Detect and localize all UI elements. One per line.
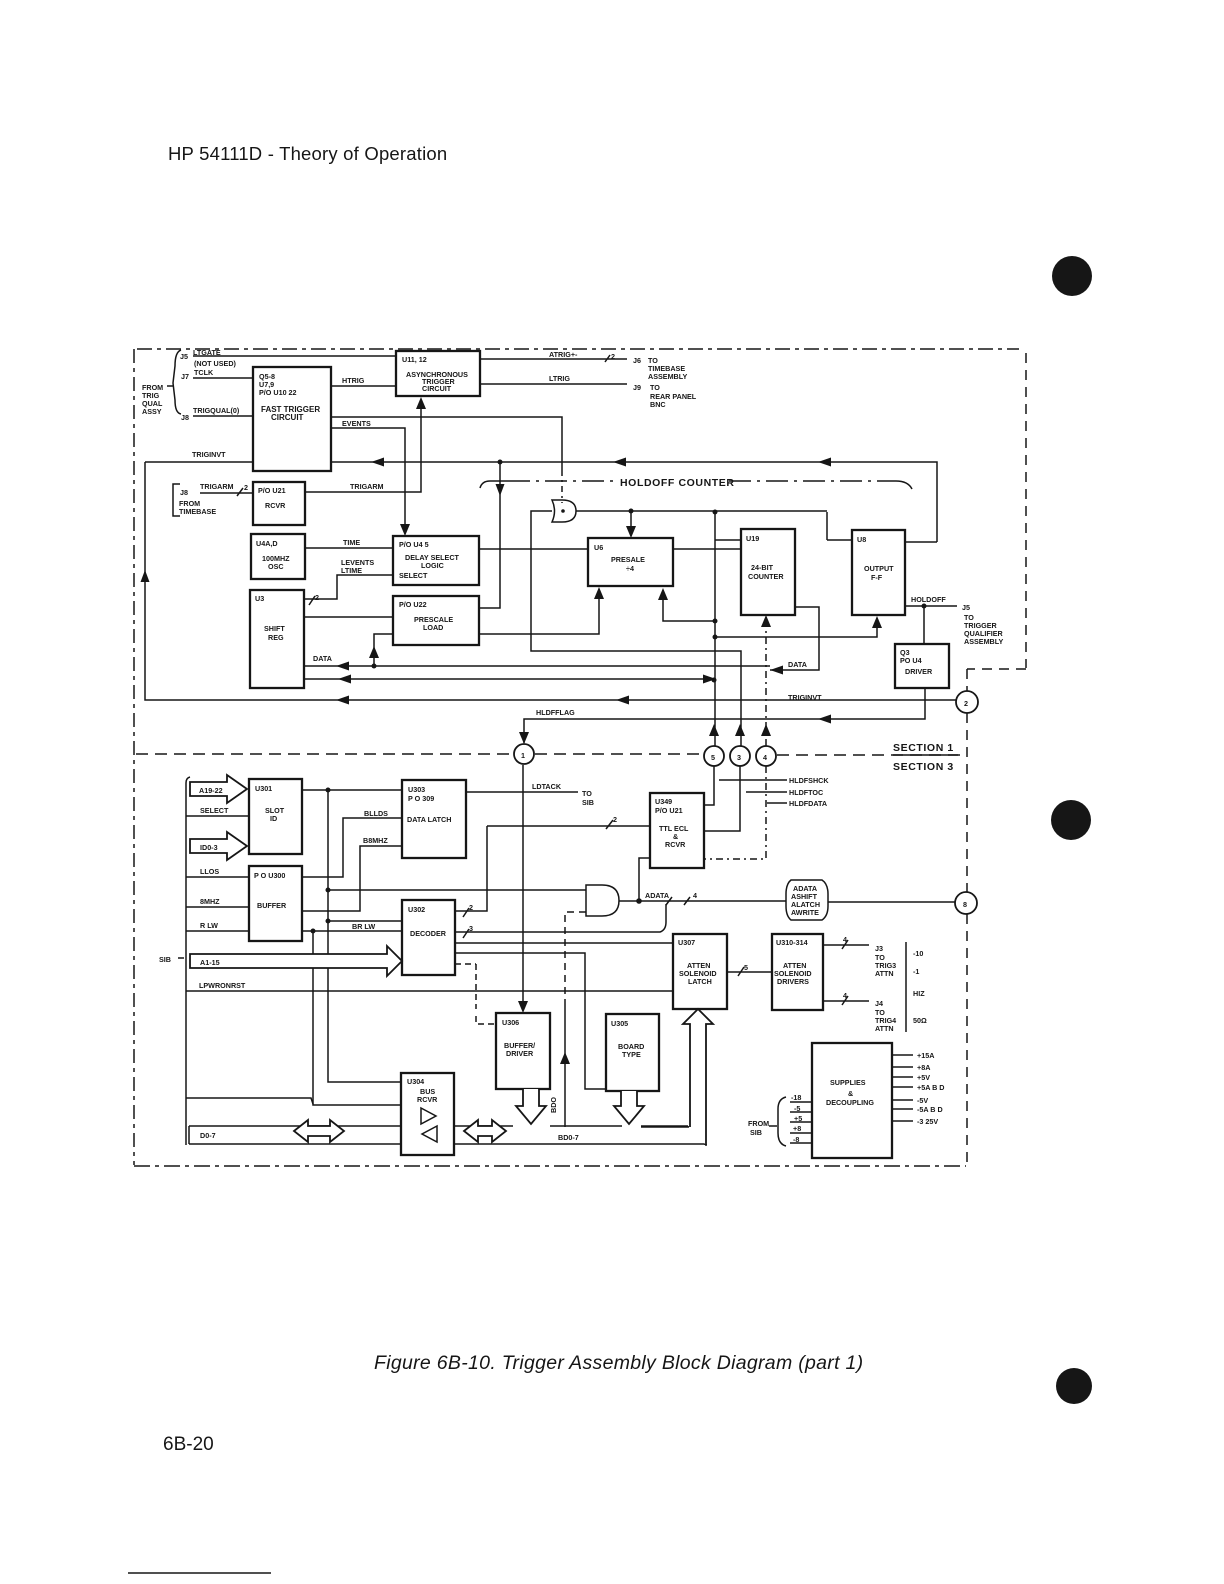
flag adata ashift alatch awrite (786, 880, 828, 920)
arrow loop left at 342 (336, 696, 349, 705)
svg-text:TRIGINVT: TRIGINVT (788, 693, 822, 702)
bus arrow A1-15 (190, 946, 402, 976)
svg-text:U6: U6 (594, 543, 603, 552)
svg-text:DRIVER: DRIVER (506, 1049, 534, 1058)
arrow into presale top (626, 526, 636, 538)
bracket J8 from timebase (173, 484, 180, 516)
label from trig qual assy (142, 383, 174, 416)
label 3 tick (463, 924, 473, 938)
box supplies and decoupling (812, 1043, 892, 1158)
section divider underline (893, 754, 958, 756)
wire decoder 2 output to u349 (455, 826, 650, 911)
svg-text:SIB: SIB (159, 955, 171, 964)
wire TRIGARM rcvr to async (305, 409, 421, 492)
wire circle5 to u349 (704, 766, 714, 805)
or-gate holdoff (552, 500, 576, 522)
label SIB (159, 955, 184, 964)
box U19 24-bit counter (741, 529, 795, 615)
wire to and gate top input (328, 889, 586, 891)
wire u310 j4 (823, 996, 869, 1005)
atten settings bar (905, 942, 907, 1032)
svg-text:-18: -18 (791, 1093, 801, 1102)
wire to output f-f bottom (715, 628, 877, 637)
label J4 to trig4 attn (875, 999, 896, 1033)
svg-text:5: 5 (744, 963, 748, 972)
wire and gate lower input (565, 912, 586, 1002)
box U8 output f-f (852, 530, 905, 615)
svg-text:ID0-3: ID0-3 (200, 843, 218, 852)
wire TRIGARM into rcvr (200, 492, 253, 494)
wire sib to u304 lower (186, 1098, 313, 1104)
svg-text:5: 5 (711, 753, 715, 762)
svg-text:SIB: SIB (582, 798, 594, 807)
node prescale tap (372, 664, 377, 669)
node 679 (712, 678, 717, 683)
brace from trig qual (173, 350, 181, 414)
svg-text:24-BIT: 24-BIT (751, 563, 774, 572)
wire DATA long to shift reg (304, 665, 770, 667)
footer rule (128, 1572, 271, 1574)
wire presale bottom to vertical (663, 598, 715, 621)
svg-text:HLDFFLAG: HLDFFLAG (536, 708, 575, 717)
svg-text:8: 8 (963, 900, 967, 909)
svg-text:-5: -5 (794, 1104, 800, 1113)
wire u307 to u310 (727, 971, 772, 973)
holdoff counter dash-dot bracket (480, 481, 912, 489)
svg-text:P O 309: P O 309 (408, 794, 434, 803)
supplies inputs (790, 1093, 812, 1144)
wire TRIGINVT loop bottom (145, 462, 956, 700)
svg-text:FROM: FROM (748, 1119, 769, 1128)
svg-text:J8: J8 (180, 488, 188, 497)
arrow loop up (141, 570, 150, 582)
label 2 tick (237, 483, 248, 496)
wire ATRIG to J6 (480, 355, 627, 362)
svg-text:DRIVER: DRIVER (905, 667, 933, 676)
wire decoder 3 output (455, 904, 666, 932)
svg-text:J5: J5 (962, 603, 970, 612)
svg-text:RCVR: RCVR (265, 501, 286, 510)
svg-text:U306: U306 (502, 1018, 519, 1027)
svg-text:BNC: BNC (650, 400, 666, 409)
svg-text:LOGIC: LOGIC (421, 561, 444, 570)
wire EVENTS (331, 428, 405, 525)
wire circle1 down to u306 (522, 765, 524, 1002)
arrow data left (336, 662, 349, 671)
svg-text:SELECT: SELECT (399, 571, 428, 580)
box U301 slot id (249, 779, 302, 854)
svg-text:HOLDOFF: HOLDOFF (911, 595, 946, 604)
svg-text:RCVR: RCVR (665, 840, 686, 849)
svg-text:3: 3 (469, 924, 473, 933)
wire gate top entry dash-dot (561, 470, 563, 503)
box U300 buffer (249, 866, 302, 941)
svg-text:ATRIG+-: ATRIG+- (549, 350, 578, 359)
wire LPWRONRST (186, 990, 673, 992)
svg-text:TIMEBASE: TIMEBASE (179, 507, 216, 516)
frame right dashed border lower (966, 669, 968, 1165)
svg-text:BD0-7: BD0-7 (558, 1133, 579, 1142)
arrow into presale bottom left (594, 587, 604, 599)
svg-text:LDTACK: LDTACK (532, 782, 562, 791)
registration dot middle (1051, 800, 1091, 840)
svg-text:4: 4 (693, 891, 697, 900)
hollow arrow u306 down (516, 1089, 546, 1124)
frame bottom dash-dot border (134, 1165, 966, 1167)
svg-text:OSC: OSC (268, 562, 284, 571)
svg-text:PO U4: PO U4 (900, 656, 922, 665)
label HLDFDATA (767, 799, 827, 808)
svg-text:LLOS: LLOS (200, 867, 219, 876)
svg-text:D0-7: D0-7 (200, 1131, 216, 1140)
svg-text:÷4: ÷4 (626, 564, 634, 573)
wire LTRIG to J9 (480, 383, 627, 385)
wire branch to prescale load (479, 462, 500, 608)
wire BLLDS buffer to data latch (302, 818, 402, 877)
arrow into delay select top (400, 524, 410, 536)
svg-text:HTRIG: HTRIG (342, 376, 365, 385)
bus arrow A19-22 (190, 775, 247, 803)
svg-text:ASSY: ASSY (142, 407, 162, 416)
svg-text:PRESALE: PRESALE (611, 555, 645, 564)
circle node 8 (955, 892, 977, 914)
label J6 to timebase assembly (633, 356, 687, 381)
wire LLOS (186, 876, 249, 878)
svg-text:-1: -1 (913, 967, 919, 976)
svg-text:LTIME: LTIME (341, 566, 362, 575)
svg-text:P/O U22: P/O U22 (399, 600, 427, 609)
wire decoder to u307 (455, 942, 673, 944)
arrow data right (770, 666, 783, 675)
svg-text:REG: REG (268, 633, 284, 642)
svg-text:U19: U19 (746, 534, 759, 543)
node holdoff (922, 604, 927, 609)
wire HTRIG (331, 385, 396, 387)
svg-text:J9: J9 (633, 383, 641, 392)
wire delay to presale (479, 548, 588, 550)
wire vertical u301 branch to u304 (328, 790, 401, 1082)
node 621 (713, 619, 718, 624)
svg-text:SELECT: SELECT (200, 806, 229, 815)
box U21 rcvr (253, 482, 305, 525)
svg-text:SIB: SIB (750, 1128, 762, 1137)
box U6 presale div4 (588, 538, 673, 586)
svg-text:ADATA: ADATA (645, 891, 669, 900)
bus arrow ID0-3 (190, 832, 247, 860)
svg-text:2: 2 (469, 903, 473, 912)
wire TRIGQUAL (193, 415, 253, 417)
svg-text:P/O U21: P/O U21 (258, 486, 286, 495)
wire SELECT (186, 815, 249, 817)
svg-text:U3: U3 (255, 594, 264, 603)
svg-text:50Ω: 50Ω (913, 1016, 927, 1025)
wire vertical to circle 5 (715, 512, 741, 746)
wire bd0 vertical to bus (564, 1002, 566, 1127)
svg-text:+5: +5 (794, 1114, 802, 1123)
svg-text:HLDFSHCK: HLDFSHCK (789, 776, 829, 785)
wire holdoff to driver (923, 606, 925, 644)
svg-text:-3 25V: -3 25V (917, 1117, 938, 1126)
label J9 to rear panel bnc (633, 383, 697, 409)
svg-text:+15A: +15A (917, 1051, 934, 1060)
wire R LW (186, 930, 249, 932)
box U3 shift reg (250, 590, 304, 688)
arrow into async bottom (416, 397, 426, 409)
box U349 ttl ecl rcvr (650, 793, 704, 868)
arrow hldfflag left (818, 715, 831, 724)
svg-text:U307: U307 (678, 938, 695, 947)
svg-text:U8: U8 (857, 535, 866, 544)
svg-text:DECOUPLING: DECOUPLING (826, 1098, 874, 1107)
wire LDTACK (466, 791, 578, 793)
wire levents staircase (304, 575, 393, 599)
section divider dashed line (136, 754, 960, 755)
arrow on branch (496, 484, 505, 496)
arrow into u306 top (518, 1001, 528, 1013)
arrow above circle 5 (709, 724, 719, 736)
svg-text:TO: TO (582, 789, 592, 798)
svg-text:HP 54111D - Theory of Operatio: HP 54111D - Theory of Operation (168, 143, 447, 164)
box U4 U5 delay select logic (393, 536, 479, 585)
box U310-314 atten solenoid drivers (772, 934, 823, 1010)
svg-text:LPWRONRST: LPWRONRST (199, 981, 246, 990)
bus d0-7 channel (189, 1126, 401, 1144)
node 328 790 (326, 788, 331, 793)
svg-text:ATTN: ATTN (875, 1024, 894, 1033)
wire TCLK (193, 377, 253, 379)
svg-text:R LW: R LW (200, 921, 218, 930)
wire to decoder upper input (328, 920, 402, 922)
frame right dashed jog (967, 668, 1026, 670)
svg-text:SHIFT: SHIFT (264, 624, 285, 633)
label HLDFSHCK (719, 776, 829, 785)
registration dot bottom (1056, 1368, 1092, 1404)
svg-text:&: & (848, 1089, 853, 1098)
svg-text:CIRCUIT: CIRCUIT (271, 413, 304, 422)
svg-text:U302: U302 (408, 905, 425, 914)
wire u310 j3 (823, 940, 869, 949)
wire 8MHZ (186, 906, 249, 908)
svg-text:4: 4 (763, 753, 767, 762)
supplies outputs (892, 1051, 945, 1126)
svg-text:P/O U21: P/O U21 (655, 806, 683, 815)
svg-text:BDO: BDO (549, 1097, 558, 1113)
svg-text:LATCH: LATCH (688, 977, 712, 986)
svg-text:OUTPUT: OUTPUT (864, 564, 894, 573)
wire TIME (305, 547, 393, 549)
wire u3 to prescale load (304, 616, 393, 618)
circle node 1 (514, 744, 534, 764)
svg-text:ATTN: ATTN (875, 969, 894, 978)
wire supplies bus link (641, 1127, 707, 1145)
svg-text:F-F: F-F (871, 573, 883, 582)
circle node 2 (956, 691, 978, 713)
frame right dashed border upper (1025, 353, 1027, 668)
svg-text:1: 1 (521, 751, 525, 760)
label 2 at decoder (463, 903, 473, 917)
svg-text:J3: J3 (875, 944, 883, 953)
arrow TRIGINVT at 375 (371, 458, 384, 467)
frame left dash-dot border (133, 349, 135, 1165)
svg-text:3: 3 (737, 753, 741, 762)
svg-text:+8A: +8A (917, 1063, 930, 1072)
box U22 prescale load (393, 596, 479, 645)
wire TRIGINVT feedback from output f-f (331, 462, 937, 542)
svg-text:SECTION 1: SECTION 1 (893, 742, 954, 754)
svg-text:Figure 6B-10. Trigger Assembl: Figure 6B-10. Trigger Assembly Block Dia… (374, 1352, 863, 1374)
arrow bd0 up (560, 1052, 570, 1064)
svg-text:2: 2 (315, 593, 319, 602)
wire HLDFFLAG from driver (524, 688, 925, 743)
arrow prescale load tap up (369, 646, 379, 658)
svg-text:SECTION 3: SECTION 3 (893, 761, 954, 773)
svg-text:(NOT USED): (NOT USED) (194, 359, 237, 368)
registration dot top (1052, 256, 1092, 296)
svg-text:J7: J7 (181, 372, 189, 381)
svg-text:6B-20: 6B-20 (163, 1434, 214, 1455)
svg-text:A1-15: A1-15 (200, 958, 220, 967)
wire HOLDOFF (905, 605, 957, 607)
wire LTGATE (193, 355, 396, 357)
svg-text:2: 2 (613, 815, 617, 824)
wire gate input return (531, 511, 741, 746)
svg-text:U4A,D: U4A,D (256, 539, 278, 548)
box U305 board type (606, 1014, 659, 1091)
svg-text:HLDFTOC: HLDFTOC (789, 788, 823, 797)
from sib bracket (748, 1097, 786, 1146)
label J3 to trig3 attn (875, 944, 896, 978)
svg-text:TYPE: TYPE (622, 1050, 641, 1059)
svg-text:J5: J5 (180, 352, 188, 361)
hollow arrow u305 down (614, 1091, 644, 1124)
node 637 (713, 635, 718, 640)
svg-text:TRIGARM: TRIGARM (200, 482, 234, 491)
svg-text:HLDFDATA: HLDFDATA (789, 799, 827, 808)
svg-text:DECODER: DECODER (410, 929, 447, 938)
label 2 tick staircase (309, 593, 319, 605)
svg-text:U349: U349 (655, 797, 672, 806)
svg-text:LOAD: LOAD (423, 623, 443, 632)
svg-text:TRIGARM: TRIGARM (350, 482, 384, 491)
node adata (636, 898, 642, 904)
box U304 bus rcvr (401, 1073, 454, 1155)
arrow above circle 4 (761, 724, 771, 736)
label 5 tick (738, 963, 748, 976)
wire adata up to u349 (639, 858, 650, 901)
svg-text:ASSEMBLY: ASSEMBLY (964, 637, 1003, 646)
svg-text:4: 4 (843, 991, 847, 1000)
svg-text:TCLK: TCLK (194, 368, 214, 377)
svg-text:+5V: +5V (917, 1073, 930, 1082)
circle node 3 (730, 746, 750, 766)
circle node 5 (704, 746, 724, 766)
wire decoder to u306 left (455, 964, 496, 1024)
svg-text:DRIVERS: DRIVERS (777, 977, 809, 986)
box U4A,D 100MHz osc (251, 534, 305, 579)
label HLDFTOC (746, 788, 823, 797)
wire gate output to output f-f (576, 511, 852, 540)
svg-text:2: 2 (611, 352, 615, 361)
svg-text:BLLDS: BLLDS (364, 809, 388, 818)
label 2 at u349 (606, 815, 617, 829)
arrow into circle 1 (519, 732, 529, 744)
bus bd0-7 channel (454, 1126, 705, 1145)
wire circle4 to u349 dash-dot (704, 766, 766, 859)
label 4 tick adata (666, 891, 697, 905)
bus arrow double right (464, 1120, 506, 1142)
box U10 fast trigger circuit (253, 367, 331, 471)
svg-text:SUPPLIES: SUPPLIES (830, 1078, 866, 1087)
wire B8MHZ (302, 846, 402, 911)
svg-text:RCVR: RCVR (417, 1095, 438, 1104)
wire prescale load bottom tap (374, 634, 393, 666)
svg-text:DATA: DATA (313, 654, 332, 663)
arrow into presale bottom right (658, 588, 668, 600)
svg-text:P O U300: P O U300 (254, 871, 285, 880)
wire shift reg data out (304, 678, 712, 680)
svg-text:LTRIG: LTRIG (549, 374, 570, 383)
hollow arrow u307 up (683, 1009, 713, 1145)
svg-text:HOLDOFF COUNTER: HOLDOFF COUNTER (620, 477, 735, 489)
wire vertical brlw branch to u304 (313, 931, 401, 1105)
wire circle4 to u19 bottom dash-dot (765, 626, 767, 746)
wire down to presale top (630, 511, 632, 528)
svg-text:2: 2 (964, 699, 968, 708)
svg-text:J8: J8 (181, 413, 189, 422)
node 921 (326, 919, 331, 924)
svg-text:U303: U303 (408, 785, 425, 794)
box U306 buffer driver (496, 1013, 550, 1089)
svg-text:J4: J4 (875, 999, 883, 1008)
wire u19 right to data (770, 607, 819, 670)
svg-text:-8: -8 (793, 1135, 799, 1144)
svg-text:ID: ID (270, 814, 277, 823)
frame top dash-dot border (137, 348, 1019, 350)
box U307 atten solenoid latch (673, 934, 727, 1009)
svg-text:BR LW: BR LW (352, 922, 375, 931)
svg-text:-5A B D: -5A B D (917, 1105, 943, 1114)
arrow above circle 3 (735, 724, 745, 736)
svg-text:AWRITE: AWRITE (791, 908, 819, 917)
svg-text:U11, 12: U11, 12 (402, 355, 427, 364)
svg-text:P/O U4 5: P/O U4 5 (399, 540, 429, 549)
svg-text:-5V: -5V (917, 1096, 928, 1105)
arrow data out right (703, 675, 716, 684)
svg-text:A19-22: A19-22 (199, 786, 223, 795)
arrow data out left (338, 675, 351, 684)
wire adata (619, 901, 956, 902)
wire circle3 to u349 (704, 766, 740, 831)
wire presale to u19 (673, 548, 741, 550)
box U303 data latch (402, 780, 466, 858)
svg-text:+8: +8 (793, 1124, 801, 1133)
box Q3 driver (895, 644, 949, 688)
svg-text:TO: TO (650, 383, 660, 392)
node TRIGINVT branch (498, 460, 503, 465)
svg-text:U310-314: U310-314 (776, 938, 808, 947)
wire decoder thick output down (455, 953, 606, 1089)
svg-text:-10: -10 (913, 949, 923, 958)
bus arrow double left (294, 1120, 344, 1142)
box U302 decoder (402, 900, 455, 975)
wire fast trigger upper output to gate (331, 417, 562, 470)
node 890 (326, 888, 331, 893)
node gate wire at 631 (629, 509, 634, 514)
svg-text:8MHZ: 8MHZ (200, 897, 220, 906)
svg-text:COUNTER: COUNTER (748, 572, 784, 581)
label LEVENTS LTIME (341, 558, 374, 575)
svg-text:+5A B D: +5A B D (917, 1083, 945, 1092)
